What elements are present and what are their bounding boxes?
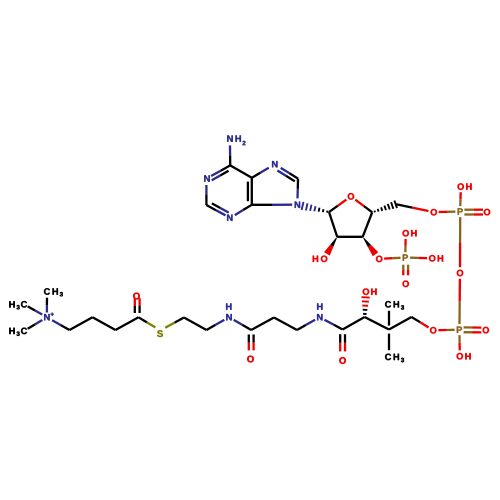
bond C5prime-O5prime	[396, 204, 428, 211]
bond Ca-Cb	[70, 317, 93, 330]
bond Cl-CH3 down	[388, 334, 390, 351]
pantoyl OH label	[363, 288, 377, 295]
ring N1 label	[204, 175, 209, 181]
bond N3-C4	[235, 205, 252, 215]
bond P alpha-O bridge	[459, 217, 462, 267]
bond O4prime-C4prime	[355, 200, 372, 213]
double bond Cj=O	[340, 334, 345, 351]
amine NH2 label	[227, 135, 245, 145]
bond C5-N7	[252, 168, 269, 178]
bond Cj-Ck	[343, 317, 365, 330]
bridge O label	[457, 270, 463, 277]
5prime O label	[431, 209, 437, 216]
bond Cl-CH3 up	[388, 311, 390, 326]
P alpha label	[458, 208, 463, 214]
P beta label	[457, 327, 462, 333]
ring N9 label	[295, 202, 300, 208]
sulfur S label	[157, 330, 163, 337]
amide 1 NH label	[226, 303, 232, 320]
bond Ck-Cl	[365, 317, 389, 330]
P3 OH right label	[429, 255, 443, 262]
bond N amide1-Cg	[234, 320, 252, 330]
gem CH3 up label	[385, 301, 404, 310]
bond Ci-N amide2	[297, 320, 315, 330]
bond N amide2-Cj	[325, 320, 343, 330]
bond Cg-Ch	[251, 318, 274, 331]
double bond P beta=O	[464, 327, 482, 332]
double bond Cd=O thioester	[135, 298, 140, 313]
bond O bridge-P beta	[458, 279, 461, 324]
bond C1prime-O4prime	[329, 200, 346, 212]
bond O pant-P beta	[438, 329, 454, 332]
P beta =O label	[483, 327, 489, 334]
bond C8-N9	[296, 179, 299, 199]
gem CH3 down label	[385, 354, 404, 363]
thioester O label	[133, 293, 140, 300]
ribose O4prime label	[348, 193, 354, 200]
bond N-CH3 upper left	[28, 306, 43, 314]
bond S-Ce	[165, 318, 184, 328]
P beta OH label	[457, 353, 471, 360]
quaternary N+ label	[44, 313, 54, 321]
bond N-CH3 top	[46, 298, 48, 313]
bond N-Ca	[52, 320, 69, 330]
bond N7=C8 double	[281, 168, 298, 179]
ribose 2prime HO label	[313, 256, 328, 263]
CH3 top label	[44, 288, 63, 296]
solid wedge C3prime-O3prime	[363, 237, 378, 256]
amide 2 O label	[339, 357, 346, 364]
bond Cm-O pant	[412, 317, 429, 328]
ribose 3prime O label	[376, 256, 382, 263]
bond P3-OH right	[410, 257, 427, 260]
hashed wedge C4prime-C5prime	[374, 201, 397, 213]
bond C4-N9	[252, 204, 292, 206]
bond N1-C2	[205, 185, 207, 205]
bond C2prime-C1prime	[329, 212, 337, 237]
bond C3prime-C2prime	[337, 236, 363, 238]
bond Cb-Cc	[93, 317, 116, 330]
amide 2 NH label	[317, 303, 322, 320]
bond Cd-S	[139, 317, 156, 327]
P3 OH up label	[403, 230, 417, 237]
bond C5-C6	[230, 165, 252, 177]
bond Ce-Cf	[184, 318, 207, 331]
pantetheine O label	[430, 327, 436, 334]
solid wedge C2prime-OH	[324, 237, 337, 255]
bond Ch-Ci	[274, 318, 297, 331]
double bond P3=O down	[403, 265, 408, 276]
bond O3prime-P3	[384, 257, 400, 260]
bond P3-OH up	[404, 239, 407, 252]
bond N-CH3 lower left	[28, 320, 43, 329]
ring N7 label	[272, 161, 277, 167]
amide 1 O label	[247, 356, 254, 363]
bond Cc-Cd	[116, 317, 139, 330]
bond P alpha-OH up	[459, 192, 462, 206]
bond O5prime-P alpha	[439, 210, 456, 213]
bond C2=N3 double	[206, 205, 225, 215]
bond P beta-OH down	[458, 335, 461, 350]
P alpha OH label	[458, 183, 472, 190]
H3C upper left label	[9, 301, 27, 309]
P3 label	[403, 254, 408, 260]
bond Cf-N amide1	[207, 320, 225, 330]
bond C6-NH2	[229, 145, 231, 165]
P3 =O label	[403, 281, 409, 288]
P alpha =O label	[484, 209, 490, 216]
double bond Cg=O	[249, 335, 254, 351]
bond C6=N1 double	[211, 165, 230, 176]
double bond P alpha=O	[464, 210, 483, 215]
bond C4prime-C3prime	[363, 212, 373, 237]
bond C4=C5 double	[251, 178, 253, 205]
hashed wedge Ck-OH	[362, 297, 370, 314]
bond Cl-Cm	[389, 317, 412, 330]
hashed wedge N9-C1prime	[302, 202, 328, 213]
ring N3 label	[227, 215, 232, 221]
H3C lower left label	[9, 328, 27, 336]
